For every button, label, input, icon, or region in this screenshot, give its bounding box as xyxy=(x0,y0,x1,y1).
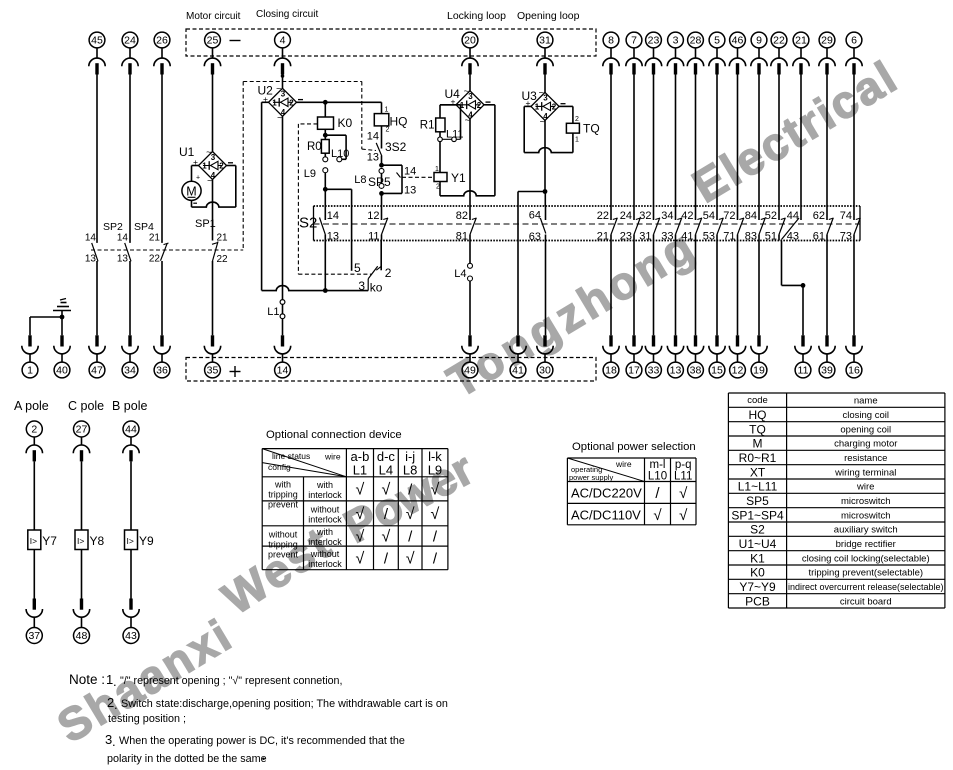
svg-text:14: 14 xyxy=(277,365,289,377)
svg-text:2: 2 xyxy=(289,98,294,107)
svg-text:1: 1 xyxy=(272,98,277,107)
svg-text:interlock: interlock xyxy=(308,537,342,547)
svg-text:28: 28 xyxy=(690,35,702,47)
svg-text:bridge rectifier: bridge rectifier xyxy=(836,539,896,550)
svg-text:R1: R1 xyxy=(420,120,435,132)
svg-text:5: 5 xyxy=(354,261,361,275)
svg-text:3: 3 xyxy=(211,153,216,162)
svg-text:closing coil locking(selectabl: closing coil locking(selectable) xyxy=(802,553,930,564)
svg-text:1: 1 xyxy=(385,106,389,113)
svg-text:SP2: SP2 xyxy=(103,221,123,233)
svg-text:U4: U4 xyxy=(445,87,461,101)
svg-text:53: 53 xyxy=(703,231,715,243)
svg-text:without: without xyxy=(268,530,298,540)
svg-text:4: 4 xyxy=(280,35,286,47)
svg-text:wire: wire xyxy=(324,452,341,462)
svg-text:64: 64 xyxy=(529,210,541,222)
svg-text:√: √ xyxy=(679,485,688,502)
svg-text:3: 3 xyxy=(673,35,679,47)
svg-text:74: 74 xyxy=(840,210,852,222)
svg-text:without: without xyxy=(310,504,340,514)
svg-text:prevent: prevent xyxy=(268,500,299,510)
svg-text:22: 22 xyxy=(773,35,785,47)
svg-text:22: 22 xyxy=(597,210,609,222)
svg-text:√: √ xyxy=(356,481,365,498)
svg-text:with: with xyxy=(316,480,333,490)
svg-text:wire: wire xyxy=(856,482,874,493)
svg-text:2: 2 xyxy=(575,116,579,123)
svg-text:√: √ xyxy=(356,528,365,545)
svg-text:interlock: interlock xyxy=(308,490,342,500)
svg-text:U3: U3 xyxy=(522,89,538,103)
svg-text:Opening loop: Opening loop xyxy=(517,10,580,22)
svg-text:35: 35 xyxy=(207,365,219,377)
svg-text:16: 16 xyxy=(848,365,860,377)
svg-text:L11: L11 xyxy=(446,129,464,141)
svg-text:p-q: p-q xyxy=(675,459,692,471)
svg-text:B pole: B pole xyxy=(112,399,147,413)
svg-text:√: √ xyxy=(679,507,688,524)
svg-text:TQ: TQ xyxy=(749,422,766,436)
svg-text:48: 48 xyxy=(76,630,88,642)
svg-text:I>: I> xyxy=(127,536,134,546)
svg-text:41: 41 xyxy=(512,365,524,377)
svg-text:tripping prevent(selectable): tripping prevent(selectable) xyxy=(808,568,923,579)
svg-text:41: 41 xyxy=(681,231,693,243)
svg-text:Optional connection device: Optional connection device xyxy=(266,429,402,441)
svg-text:31: 31 xyxy=(639,231,651,243)
svg-text:√: √ xyxy=(382,528,391,545)
svg-text:interlock: interlock xyxy=(308,559,342,569)
svg-text:20: 20 xyxy=(464,35,476,47)
svg-text:62: 62 xyxy=(813,210,825,222)
svg-text:S2: S2 xyxy=(750,523,765,537)
svg-text:2: 2 xyxy=(219,162,224,171)
svg-text:26: 26 xyxy=(156,35,168,47)
svg-text:~: ~ xyxy=(540,117,545,127)
svg-text:wiring terminal: wiring terminal xyxy=(834,467,896,478)
svg-text:U2: U2 xyxy=(258,84,274,98)
svg-text:73: 73 xyxy=(840,231,852,243)
svg-text:L4: L4 xyxy=(379,463,393,478)
svg-text:K0: K0 xyxy=(750,566,765,580)
svg-text:closing coil: closing coil xyxy=(843,410,889,421)
svg-text:L10: L10 xyxy=(648,471,667,483)
svg-text:14: 14 xyxy=(327,210,339,222)
svg-text:config: config xyxy=(268,462,291,472)
svg-text:47: 47 xyxy=(91,365,103,377)
svg-text:11: 11 xyxy=(798,365,809,377)
svg-text:13: 13 xyxy=(85,254,97,265)
svg-text:without: without xyxy=(310,549,340,559)
svg-text:29: 29 xyxy=(821,35,833,47)
svg-text:40: 40 xyxy=(56,365,68,377)
svg-text:•: • xyxy=(262,754,265,764)
svg-text:3: 3 xyxy=(543,94,548,103)
svg-text:M: M xyxy=(186,185,196,199)
svg-text:12: 12 xyxy=(367,210,379,222)
svg-text:√: √ xyxy=(431,481,440,498)
svg-text:61: 61 xyxy=(813,231,825,243)
svg-text:14: 14 xyxy=(85,233,97,244)
svg-text:30: 30 xyxy=(539,365,551,377)
svg-text:I>: I> xyxy=(77,536,84,546)
svg-text:A pole: A pole xyxy=(14,399,49,413)
svg-text:.: . xyxy=(113,674,117,689)
svg-text:1: 1 xyxy=(27,365,33,377)
svg-text:14: 14 xyxy=(117,233,129,244)
svg-text:resistance: resistance xyxy=(844,453,887,464)
svg-text:Locking loop: Locking loop xyxy=(447,10,506,22)
svg-text:72: 72 xyxy=(723,210,735,222)
svg-text:√: √ xyxy=(431,506,440,523)
svg-text:M: M xyxy=(753,437,763,451)
svg-text:C pole: C pole xyxy=(68,399,104,413)
svg-text:L1: L1 xyxy=(353,463,367,478)
svg-text:TQ: TQ xyxy=(583,122,600,136)
svg-text:Optional power selection: Optional power selection xyxy=(572,441,696,453)
svg-text:Y8: Y8 xyxy=(90,534,105,548)
svg-text:Note :: Note : xyxy=(69,672,105,687)
svg-text:SP1: SP1 xyxy=(195,218,216,230)
svg-text:1: 1 xyxy=(575,137,579,144)
svg-text:testing position ;: testing position ; xyxy=(108,713,186,725)
svg-text:21: 21 xyxy=(149,233,161,244)
svg-text:~: ~ xyxy=(207,176,212,186)
svg-text:L8: L8 xyxy=(354,174,366,186)
svg-text:circuit board: circuit board xyxy=(840,596,892,607)
svg-text:XT: XT xyxy=(750,465,766,479)
svg-text:18: 18 xyxy=(605,365,617,377)
svg-text:L9: L9 xyxy=(428,463,442,478)
svg-text:L8: L8 xyxy=(403,463,417,478)
svg-text:Y7: Y7 xyxy=(42,534,57,548)
svg-text:33: 33 xyxy=(648,365,660,377)
svg-text:11: 11 xyxy=(368,231,379,243)
svg-text:8: 8 xyxy=(608,35,614,47)
svg-text:5: 5 xyxy=(714,35,720,47)
svg-text:~: ~ xyxy=(276,84,281,94)
svg-text:K1: K1 xyxy=(750,551,765,565)
svg-text:√: √ xyxy=(406,550,415,567)
svg-text:1: 1 xyxy=(202,162,207,171)
svg-text:2: 2 xyxy=(477,101,482,110)
svg-text:HQ: HQ xyxy=(390,115,408,129)
svg-text:~: ~ xyxy=(464,86,469,96)
svg-text:51: 51 xyxy=(765,231,777,243)
svg-text:12: 12 xyxy=(732,365,744,377)
svg-text:~: ~ xyxy=(539,88,544,98)
svg-text:polarity in the dotted be the: polarity in the dotted be the same xyxy=(107,753,267,765)
svg-text:7: 7 xyxy=(631,35,637,47)
svg-text:25: 25 xyxy=(207,35,219,47)
svg-text:SP4: SP4 xyxy=(134,221,154,233)
svg-text:3: 3 xyxy=(468,92,473,101)
svg-text:power supply: power supply xyxy=(569,473,613,482)
svg-text:54: 54 xyxy=(703,210,715,222)
svg-text:√: √ xyxy=(356,550,365,567)
svg-text:83: 83 xyxy=(745,231,757,243)
svg-text:HQ: HQ xyxy=(749,408,767,422)
svg-text:3S2: 3S2 xyxy=(385,140,407,154)
svg-text:L11: L11 xyxy=(674,471,692,483)
svg-text:S2: S2 xyxy=(299,215,317,232)
svg-text:R0: R0 xyxy=(307,141,322,153)
svg-text:14: 14 xyxy=(404,166,416,178)
svg-text:2: 2 xyxy=(385,266,392,280)
svg-text:Y7~Y9: Y7~Y9 xyxy=(739,580,776,594)
svg-text:√: √ xyxy=(356,506,365,523)
svg-text:L9: L9 xyxy=(304,168,316,180)
svg-text:+: + xyxy=(196,175,200,182)
svg-text:34: 34 xyxy=(661,210,673,222)
svg-text:43: 43 xyxy=(787,231,799,243)
svg-text:√: √ xyxy=(406,506,415,523)
svg-text:33: 33 xyxy=(661,231,673,243)
svg-text:.: . xyxy=(112,734,116,749)
svg-text:AC/DC220V: AC/DC220V xyxy=(571,486,642,501)
svg-text:PCB: PCB xyxy=(745,594,770,608)
svg-text:auxiliary switch: auxiliary switch xyxy=(834,525,898,536)
svg-text:opening coil: opening coil xyxy=(840,424,891,435)
svg-text:27: 27 xyxy=(76,424,88,436)
svg-text:√: √ xyxy=(653,507,662,524)
svg-text:38: 38 xyxy=(690,365,702,377)
svg-text:with: with xyxy=(274,480,291,490)
svg-text:Y1: Y1 xyxy=(451,171,466,185)
svg-text:L1~L11: L1~L11 xyxy=(738,480,778,494)
svg-text:13: 13 xyxy=(367,152,379,164)
svg-text:42: 42 xyxy=(681,210,693,222)
svg-text:31: 31 xyxy=(539,35,551,47)
svg-text:interlock: interlock xyxy=(308,514,342,524)
svg-text:13: 13 xyxy=(327,231,339,243)
svg-text:R0~R1: R0~R1 xyxy=(739,451,777,465)
svg-text:indirect overcurrent release(s: indirect overcurrent release(selectable) xyxy=(788,582,944,592)
svg-text:45: 45 xyxy=(91,35,103,47)
svg-text:71: 71 xyxy=(723,231,735,243)
svg-text:34: 34 xyxy=(124,365,136,377)
svg-text:microswitch: microswitch xyxy=(841,510,891,521)
svg-text:prevent: prevent xyxy=(268,550,299,560)
svg-text:tripping: tripping xyxy=(268,540,298,550)
svg-text:charging motor: charging motor xyxy=(834,439,897,450)
svg-text:√: √ xyxy=(382,481,391,498)
svg-text:14: 14 xyxy=(367,131,379,143)
svg-text:13: 13 xyxy=(670,365,682,377)
svg-text:wire: wire xyxy=(615,459,632,469)
svg-text:~: ~ xyxy=(206,147,211,157)
svg-text:52: 52 xyxy=(765,210,777,222)
svg-text:6: 6 xyxy=(851,35,857,47)
svg-text:~: ~ xyxy=(465,115,470,125)
svg-text:22: 22 xyxy=(217,254,229,265)
svg-text:U1: U1 xyxy=(179,145,195,159)
svg-text:81: 81 xyxy=(456,231,468,243)
svg-text:13: 13 xyxy=(404,185,416,197)
svg-text:.: . xyxy=(114,697,118,712)
svg-text:3: 3 xyxy=(281,90,286,99)
svg-text:L10: L10 xyxy=(331,148,349,160)
svg-text:15: 15 xyxy=(711,365,723,377)
svg-text:SP5: SP5 xyxy=(368,175,391,189)
svg-text:microswitch: microswitch xyxy=(841,496,891,507)
svg-text:line status: line status xyxy=(272,451,310,461)
svg-text:K0: K0 xyxy=(338,116,353,130)
svg-text:63: 63 xyxy=(529,231,541,243)
svg-text:Y9: Y9 xyxy=(139,534,154,548)
svg-text:Closing circuit: Closing circuit xyxy=(256,9,318,20)
svg-text:Motor circuit: Motor circuit xyxy=(186,11,241,22)
svg-text:AC/DC110V: AC/DC110V xyxy=(571,508,641,523)
svg-text:2: 2 xyxy=(552,102,557,111)
svg-text:"/" represent opening ; "√" re: "/" represent opening ; "√" represent co… xyxy=(120,675,342,687)
svg-text:23: 23 xyxy=(648,35,660,47)
svg-text:21: 21 xyxy=(217,233,229,244)
svg-text:When the operating power is DC: When the operating power is DC, it's rec… xyxy=(119,735,405,747)
svg-text:84: 84 xyxy=(745,210,757,222)
svg-text:24: 24 xyxy=(620,210,632,222)
svg-text:23: 23 xyxy=(620,231,632,243)
svg-text:ko: ko xyxy=(370,281,383,295)
svg-text:name: name xyxy=(854,396,878,407)
svg-text:37: 37 xyxy=(28,630,40,642)
svg-text:m-l: m-l xyxy=(650,459,666,471)
svg-text:SP1~SP4: SP1~SP4 xyxy=(731,508,784,522)
svg-text:SP5: SP5 xyxy=(746,494,769,508)
svg-text:21: 21 xyxy=(597,231,609,243)
svg-text:82: 82 xyxy=(456,210,468,222)
svg-text:36: 36 xyxy=(156,365,168,377)
svg-text:3: 3 xyxy=(358,279,365,293)
svg-text:code: code xyxy=(747,395,768,406)
svg-text:32: 32 xyxy=(639,210,651,222)
svg-text:L4: L4 xyxy=(454,268,466,280)
svg-text:21: 21 xyxy=(795,35,807,47)
svg-text:46: 46 xyxy=(732,35,744,47)
svg-text:with: with xyxy=(316,527,333,537)
svg-text:24: 24 xyxy=(124,35,136,47)
svg-text:L1: L1 xyxy=(267,306,279,318)
svg-text:I>: I> xyxy=(30,536,37,546)
svg-text:1: 1 xyxy=(535,102,540,111)
svg-text:tripping: tripping xyxy=(268,490,298,500)
svg-text:17: 17 xyxy=(628,365,640,377)
svg-text:43: 43 xyxy=(125,630,137,642)
svg-text:39: 39 xyxy=(821,365,833,377)
svg-text:9: 9 xyxy=(756,35,762,47)
svg-text:Switch state:discharge,opening: Switch state:discharge,opening position;… xyxy=(121,698,448,710)
svg-text:44: 44 xyxy=(125,424,137,436)
svg-text:~: ~ xyxy=(277,113,282,123)
svg-text:22: 22 xyxy=(149,254,161,265)
svg-text:49: 49 xyxy=(464,365,476,377)
svg-text:U1~U4: U1~U4 xyxy=(739,537,777,551)
svg-text:2: 2 xyxy=(31,424,37,436)
svg-text:2: 2 xyxy=(386,126,390,133)
svg-text:19: 19 xyxy=(753,365,765,377)
svg-text:13: 13 xyxy=(117,254,129,265)
